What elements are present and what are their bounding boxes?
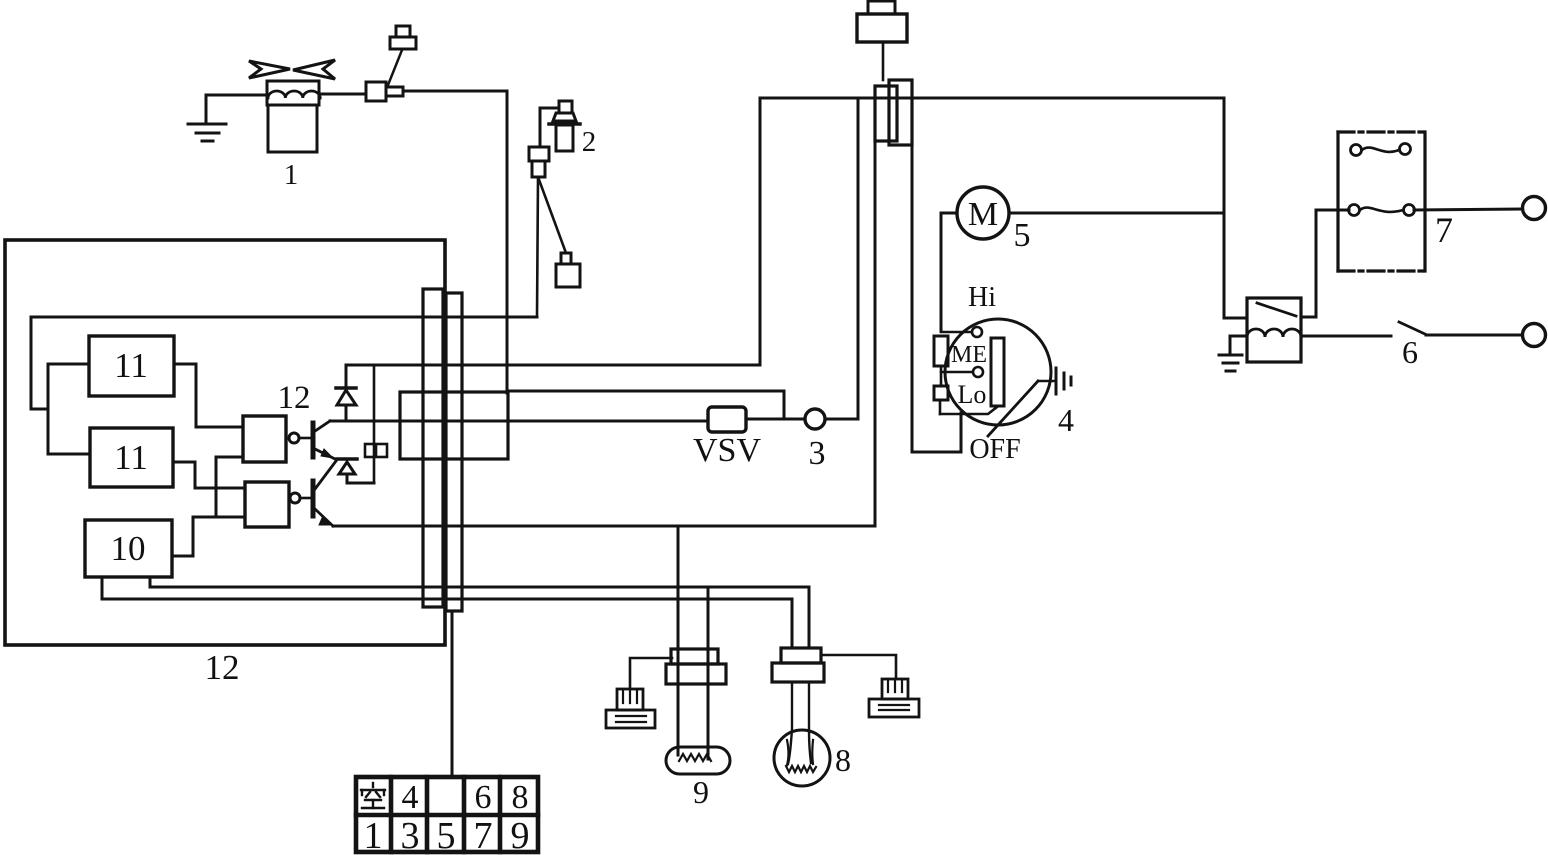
inverter bubble U2 [290,493,300,503]
wire connector right pin to switch 4 [912,145,961,452]
wire relay coil to ground [1230,336,1247,355]
wire 11a to gate1 [174,364,243,427]
wire branch 10 to gate1 [216,457,243,517]
plug (sensor 2) [556,253,580,287]
terminal (relay 7) [1523,197,1546,220]
wire connector2 diagonal to plug [538,177,566,253]
lamp 9 [666,747,730,774]
wire motor to rail vertical [1009,212,1223,215]
svg-text:5: 5 [1014,217,1031,254]
wire lamp 8 to plug [821,655,896,679]
svg-text:Hi: Hi [968,282,996,313]
wire to box 11b [48,453,90,456]
wire switch 6 to terminal [1426,334,1522,337]
wire Hi contact [941,331,971,334]
wire 10a to lamps [150,577,809,648]
svg-text:7: 7 [474,815,493,855]
wire motor to switch Hi [941,213,957,331]
wire 11b to gate2 [173,462,245,488]
svg-text:1: 1 [364,815,383,855]
wire upper to VSV junction [508,391,784,419]
transistor Q2 [313,461,336,526]
ground (horn) [188,95,226,141]
plug (lamp 9) [606,689,655,728]
svg-text:1: 1 [284,159,299,191]
sensor 3 [805,409,825,429]
solenoid VSV [708,407,746,432]
connector (lamp 9) [666,649,726,684]
plug (lamp 8) [869,679,919,717]
svg-text:Lo: Lo [958,380,987,409]
wire rail B+ top [346,98,1224,365]
svg-text:OFF: OFF [969,434,1020,465]
svg-text:VSV: VSV [693,432,761,469]
svg-text:11: 11 [114,346,148,385]
svg-text:8: 8 [835,742,851,778]
sensor 2 [549,101,580,151]
wire sensor 2 to its connector [540,108,559,147]
wire 10b to lamp 8 [102,577,792,648]
svg-text:2: 2 [582,126,597,158]
svg-text:6: 6 [475,779,492,816]
wire to box 11a [48,363,89,366]
horn 1 [249,60,335,152]
wire VSV to sensor 3 [746,418,805,421]
wire relay coil to switch 6 [1301,335,1391,338]
wire connector to vertical [403,90,507,93]
connector (horn) [366,82,403,101]
svg-text:4: 4 [402,779,419,816]
wire D2 anode to node [347,482,374,485]
wire W1 split vertical [47,364,50,454]
wire ME contact [941,371,972,374]
svg-text:11: 11 [114,438,148,477]
svg-text:5: 5 [437,815,456,855]
capacitor C1 (small inline part) [365,366,387,483]
contact pair (relay 7 bottom) [1349,205,1415,216]
wire horn to ground [206,94,267,97]
connector (top) [875,80,912,145]
wire 10 to gates [172,517,245,556]
wire lamp 9 to plug [630,658,672,689]
relay 7 (dashed box) [1338,132,1425,271]
wire common bottom [940,407,997,414]
component (top actuator) [857,1,907,80]
contact Hi [972,327,982,337]
wire branch down to lamp 9 [677,526,680,755]
contact ME [973,367,983,377]
wire connector2 down to node W1 [537,177,538,317]
resistor R2 [934,386,948,400]
plug above horn connector [388,26,416,85]
svg-text:6: 6 [1402,334,1418,370]
relay (fan relay) [1247,298,1301,362]
wire vertical from horn line down to box [506,91,509,393]
svg-text:10: 10 [111,529,146,568]
box 11a [89,336,174,396]
wire sensor 3 to rail [825,98,858,419]
wire column to table [451,611,454,777]
svg-text:9: 9 [693,774,709,810]
gate U1 [243,416,286,462]
wire R2 to common [939,400,942,414]
gate U2 [245,482,289,527]
svg-text:3: 3 [809,435,826,472]
ground (switch 4) [1056,368,1071,394]
diode D1 [336,366,356,421]
pin label kong (empty) drawn glyph [361,783,385,808]
svg-text:12: 12 [205,648,240,687]
svg-text:3: 3 [401,815,420,855]
box 11b [90,428,173,487]
lamp 8 [774,682,830,786]
svg-text:8: 8 [512,779,529,816]
connector table [356,777,538,852]
switch 6 [1399,322,1425,334]
wire bubble2 to Q2 base [300,497,311,500]
wire W1 input [31,317,537,409]
wire relay 7 to terminal [1414,209,1522,210]
pin labels row 2 [364,815,530,855]
contact pair (relay 7 top) [1351,144,1411,156]
terminal (switch 6) [1523,324,1546,347]
motor M 5 [957,187,1009,239]
wire branch to lamp 9 second pin [707,587,710,759]
switch 4 (blower) [945,319,1051,425]
box 10 [85,520,172,577]
inverter bubble U1 [289,433,299,443]
ECU box 12 [5,240,445,645]
resistor R1 [934,336,948,366]
wire R1 to R2 [940,366,943,386]
diode D2 [337,459,357,483]
wire horn to connector [319,93,366,96]
wire rail to relay coil [1224,98,1247,318]
wire relay armature to relay 7 [1301,210,1349,317]
wire collector rail to VSV [330,420,708,423]
wiper bar [991,338,1004,406]
wire connector left pin down [874,141,877,526]
transistor Q1 [313,421,335,459]
svg-text:M: M [968,196,998,233]
wire bubble1 to Q1 base [299,437,311,440]
switch lever OFF [988,381,1038,436]
svg-text:ME: ME [951,342,987,368]
wire lever to ground [1038,380,1056,383]
wire Q2 emitter to connector [333,525,875,528]
svg-text:4: 4 [1058,402,1074,438]
svg-text:9: 9 [511,815,530,855]
pin labels row 1 [402,779,529,816]
connector (sensor 2) [529,147,549,177]
box (ECU output block) [400,392,508,459]
ground (relay) [1219,355,1242,371]
connector (lamp 8) [772,648,824,682]
svg-text:12: 12 [278,380,311,416]
connector column (ECU) [423,289,462,611]
svg-text:7: 7 [1435,210,1453,250]
